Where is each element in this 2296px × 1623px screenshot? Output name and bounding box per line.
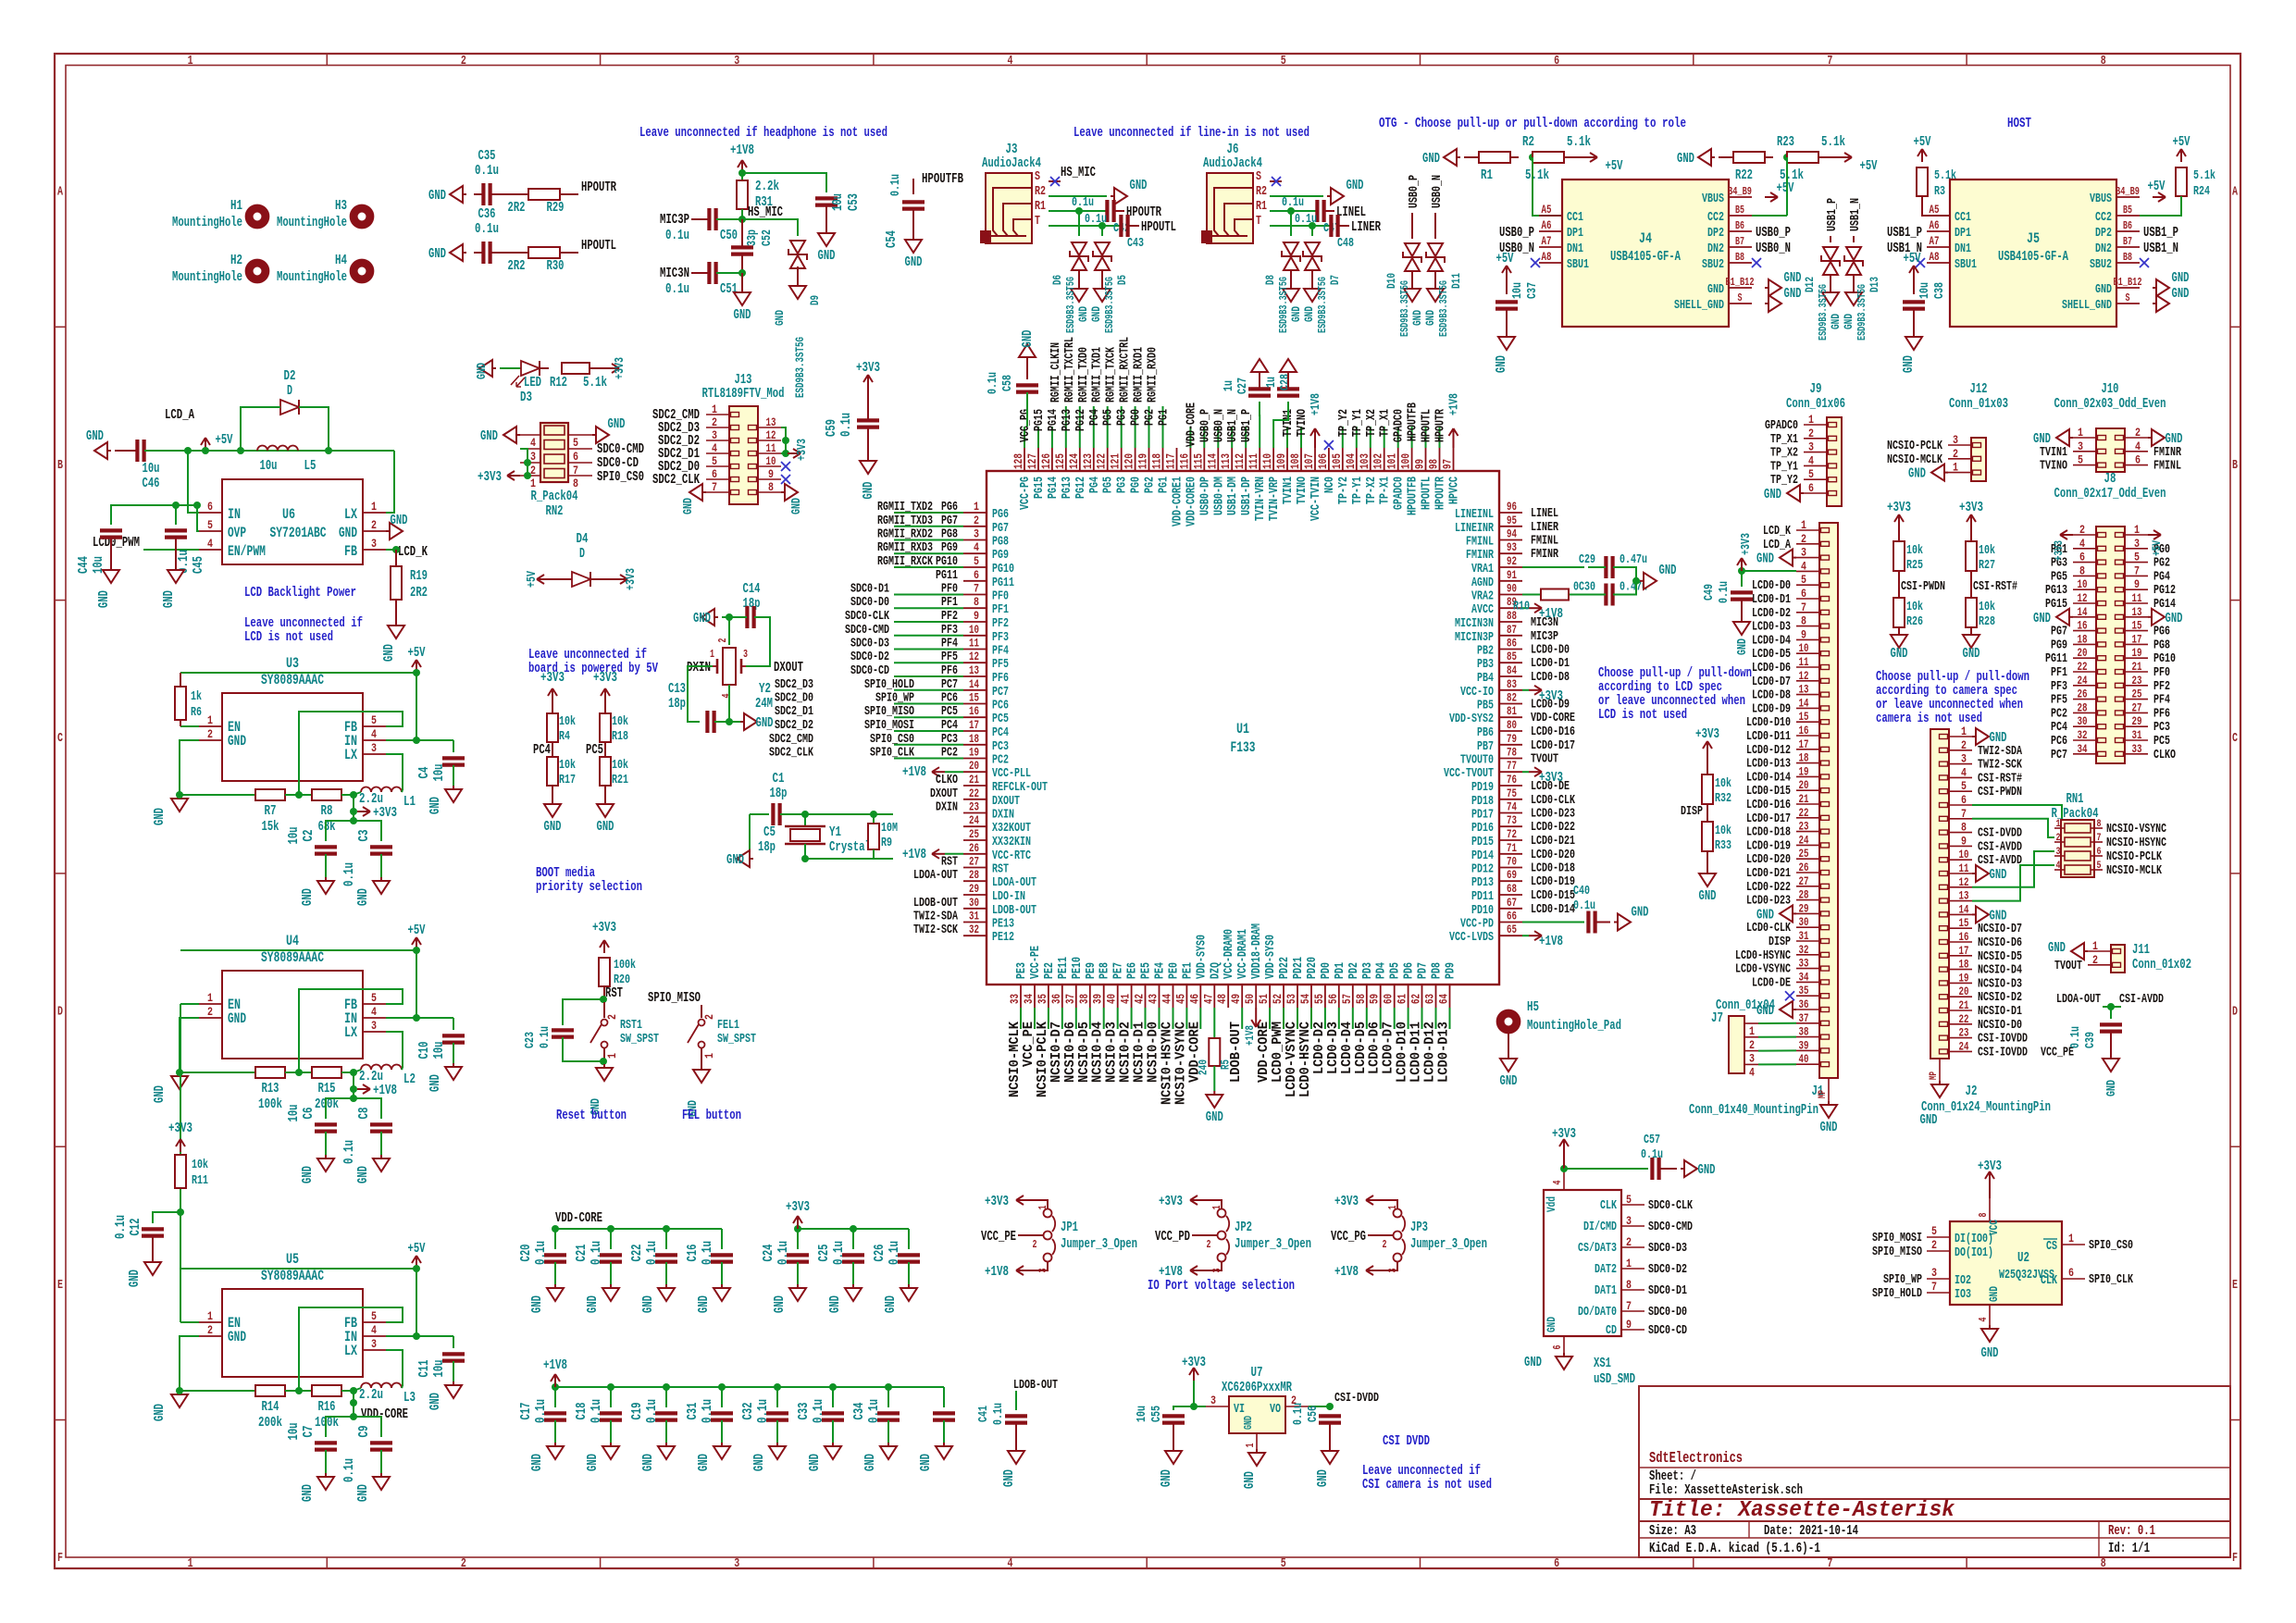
wire — [894, 539, 963, 541]
svg-text:VDD-SYS2: VDD-SYS2 — [1449, 712, 1494, 726]
power +5V — [2180, 149, 2182, 162]
svg-text:GND: GND — [1908, 466, 1926, 482]
wire — [402, 1068, 403, 1070]
junction — [1529, 154, 1536, 161]
wire — [326, 1391, 354, 1437]
svg-text:PC4: PC4 — [2051, 720, 2067, 735]
power +3V3 — [1529, 771, 1542, 773]
svg-text:30: 30 — [1799, 915, 1809, 929]
wire — [804, 844, 806, 859]
wire — [1241, 1008, 1243, 1029]
junction — [801, 855, 809, 862]
svg-text:GND: GND — [1632, 905, 1649, 921]
wire — [610, 1387, 612, 1407]
wire — [1310, 1008, 1312, 1029]
wire — [474, 193, 483, 195]
ground — [1765, 287, 1769, 289]
svg-text:GPADC0: GPADC0 — [1392, 477, 1407, 510]
svg-text:TP_X2: TP_X2 — [1770, 446, 1798, 461]
svg-text:R11: R11 — [192, 1173, 208, 1188]
svg-text:D8: D8 — [1263, 275, 1277, 285]
microcontroller U1 F133 — [987, 471, 1499, 985]
wire — [180, 949, 416, 951]
junction — [600, 1058, 607, 1065]
power +3V3 — [1193, 1368, 1195, 1381]
svg-text:3: 3 — [974, 527, 979, 541]
wire — [741, 254, 743, 273]
svg-text:U3: U3 — [286, 655, 299, 672]
svg-text:26: 26 — [1799, 861, 1809, 874]
svg-text:PG8: PG8 — [992, 535, 1009, 550]
svg-text:PG11: PG11 — [2045, 651, 2067, 666]
svg-text:C59: C59 — [824, 419, 839, 437]
svg-text:LCD_A: LCD_A — [165, 407, 194, 423]
svg-text:R17: R17 — [559, 773, 576, 787]
svg-text:0.1u: 0.1u — [589, 1241, 604, 1265]
svg-text:+1V8: +1V8 — [1447, 393, 1462, 415]
svg-text:PG13: PG13 — [2045, 583, 2067, 598]
svg-text:D7: D7 — [1328, 275, 1342, 285]
svg-text:Date: 2021-10-14: Date: 2021-10-14 — [1764, 1523, 1858, 1539]
junction — [738, 269, 746, 277]
wire — [1786, 157, 1788, 216]
svg-text:GND: GND — [86, 428, 104, 444]
wire — [776, 1387, 778, 1407]
power +1V8 — [932, 853, 945, 855]
svg-text:GND: GND — [1422, 151, 1440, 167]
ground — [1793, 1009, 1796, 1010]
svg-text:+3V3: +3V3 — [168, 1121, 192, 1136]
svg-text:33: 33 — [1799, 957, 1809, 971]
svg-text:114: 114 — [1205, 453, 1219, 469]
svg-text:GND: GND — [696, 1295, 712, 1313]
svg-text:NCSIO-PCLK: NCSIO-PCLK — [1887, 439, 1942, 453]
svg-text:PD12: PD12 — [1471, 862, 1494, 877]
svg-text:8: 8 — [1801, 614, 1806, 628]
svg-text:PD14: PD14 — [1471, 849, 1494, 863]
svg-text:CSI-PWDN: CSI-PWDN — [1901, 579, 1945, 594]
svg-text:PC5: PC5 — [586, 742, 603, 758]
resistor R29 — [528, 189, 560, 200]
svg-text:34: 34 — [1022, 994, 1036, 1004]
svg-text:PG3: PG3 — [1115, 477, 1130, 493]
svg-text:PD5: PD5 — [1388, 962, 1403, 979]
svg-text:C34: C34 — [851, 1403, 867, 1420]
wire — [1570, 594, 1606, 596]
svg-text:HOST: HOST — [2007, 116, 2031, 131]
svg-text:MP: MP — [1929, 1072, 1940, 1080]
svg-text:23: 23 — [969, 800, 979, 814]
svg-text:SY7201ABC: SY7201ABC — [270, 525, 327, 541]
svg-text:0.1u: 0.1u — [341, 862, 357, 886]
svg-text:PC4: PC4 — [533, 742, 551, 758]
svg-text:10k: 10k — [559, 714, 576, 729]
svg-text:OVP: OVP — [228, 525, 246, 541]
mounting hole H5 — [1500, 1013, 1517, 1030]
ground — [1830, 289, 1831, 292]
svg-text:19: 19 — [1959, 971, 1969, 985]
svg-text:HS_MIC: HS_MIC — [1061, 165, 1096, 180]
svg-text:LCD0-D10: LCD0-D10 — [1746, 715, 1791, 730]
svg-text:SY8089AAAC: SY8089AAAC — [261, 1268, 324, 1284]
wire — [1114, 210, 1124, 212]
svg-text:124: 124 — [1067, 453, 1081, 469]
junction — [782, 437, 789, 444]
svg-text:74: 74 — [1507, 800, 1517, 814]
svg-text:R5: R5 — [1218, 1059, 1232, 1070]
svg-text:A: A — [57, 185, 63, 200]
svg-text:C21: C21 — [574, 1245, 590, 1262]
resistor R21 — [600, 757, 611, 786]
svg-text:4: 4 — [2079, 537, 2085, 551]
svg-text:VDD-CORE: VDD-CORE — [555, 1210, 602, 1226]
wire — [1185, 1008, 1187, 1029]
ground — [380, 1155, 382, 1158]
wire — [894, 621, 963, 623]
wire — [1970, 527, 1972, 541]
mounting hole H1 — [249, 208, 266, 225]
svg-text:1: 1 — [605, 1053, 619, 1059]
wire — [1192, 1234, 1217, 1236]
svg-text:D12: D12 — [1803, 277, 1817, 292]
svg-text:26: 26 — [969, 841, 979, 855]
resistor R6 — [175, 687, 186, 720]
svg-text:GND: GND — [1764, 487, 1781, 502]
svg-text:MIC3P: MIC3P — [1531, 629, 1558, 644]
svg-text:LX: LX — [344, 747, 357, 763]
svg-text:10u: 10u — [1510, 282, 1525, 299]
svg-text:C32: C32 — [740, 1403, 756, 1420]
svg-text:DN1: DN1 — [1955, 242, 1971, 256]
svg-text:GND: GND — [381, 644, 397, 662]
svg-text:44: 44 — [1160, 994, 1174, 1004]
svg-text:71: 71 — [1507, 841, 1517, 855]
svg-text:FB: FB — [344, 543, 357, 560]
wire — [180, 673, 181, 687]
svg-text:C46: C46 — [143, 476, 160, 491]
ground — [714, 616, 718, 618]
svg-text:115: 115 — [1191, 453, 1205, 469]
svg-text:TVINO: TVINO — [1295, 409, 1309, 437]
svg-text:1: 1 — [188, 54, 193, 68]
svg-text:R1: R1 — [1035, 199, 1046, 214]
svg-text:5: 5 — [2078, 453, 2083, 467]
svg-text:19: 19 — [1799, 764, 1809, 778]
svg-text:GND: GND — [475, 363, 490, 379]
svg-text:C37: C37 — [1525, 282, 1540, 299]
svg-text:XX32KIN: XX32KIN — [992, 835, 1031, 849]
svg-text:DAT1: DAT1 — [1595, 1283, 1617, 1298]
svg-text:PG8: PG8 — [2153, 638, 2170, 652]
svg-text:Reset button: Reset button — [556, 1108, 627, 1123]
svg-text:NCSIO-D4: NCSIO-D4 — [1978, 963, 2022, 978]
svg-text:103: 103 — [1358, 453, 1371, 469]
junction — [193, 502, 201, 509]
svg-text:2: 2 — [207, 1323, 213, 1337]
ground — [179, 795, 180, 799]
svg-text:PG7: PG7 — [992, 521, 1009, 536]
ground — [552, 800, 553, 804]
svg-text:SDC0-CD: SDC0-CD — [1648, 1323, 1687, 1338]
svg-text:VCC-RTC: VCC-RTC — [992, 849, 1031, 863]
junction — [295, 1387, 303, 1394]
svg-text:10u: 10u — [431, 1360, 447, 1378]
svg-text:C24: C24 — [761, 1245, 776, 1262]
svg-text:93: 93 — [1507, 540, 1517, 554]
svg-text:CS/DAT3: CS/DAT3 — [1578, 1241, 1617, 1256]
svg-text:H2: H2 — [230, 253, 242, 268]
svg-text:J8: J8 — [2104, 471, 2116, 487]
junction — [663, 1383, 670, 1391]
svg-text:DISP: DISP — [1681, 804, 1703, 819]
svg-text:PC3: PC3 — [2153, 720, 2170, 735]
ground — [610, 1284, 612, 1288]
power +1V8 — [1529, 607, 1542, 609]
svg-text:LINEL: LINEL — [1531, 506, 1558, 521]
svg-text:2: 2 — [1749, 1038, 1755, 1052]
svg-text:3: 3 — [1961, 752, 1967, 766]
junction — [794, 1225, 801, 1233]
svg-text:MIC3P: MIC3P — [660, 212, 689, 228]
svg-text:CC1: CC1 — [1567, 210, 1583, 225]
svg-text:DISP: DISP — [1769, 935, 1791, 949]
no-connect — [1531, 258, 1540, 267]
wire — [354, 1098, 381, 1119]
svg-text:R8: R8 — [321, 803, 333, 819]
svg-text:USB1_P: USB1_P — [1825, 198, 1840, 231]
svg-text:PG15: PG15 — [1032, 409, 1047, 431]
wire — [780, 813, 893, 815]
XS1 GND pin — [1563, 1336, 1565, 1353]
svg-text:+5V: +5V — [525, 571, 540, 588]
svg-text:Id: 1/1: Id: 1/1 — [2108, 1541, 2150, 1556]
svg-text:17: 17 — [969, 718, 979, 732]
wire — [1018, 1234, 1043, 1236]
svg-text:104: 104 — [1344, 453, 1358, 469]
junction — [726, 613, 733, 621]
wire — [908, 1262, 910, 1284]
wire — [402, 790, 403, 792]
svg-text:20: 20 — [1959, 985, 1969, 998]
svg-text:8: 8 — [1977, 1213, 1990, 1218]
svg-text:27: 27 — [1799, 874, 1809, 888]
wire — [1411, 427, 1413, 448]
svg-text:+3V3: +3V3 — [373, 805, 397, 821]
svg-text:J5: J5 — [2027, 230, 2040, 247]
svg-text:Conn_01x02: Conn_01x02 — [2132, 957, 2191, 973]
svg-text:FMINR: FMINR — [2153, 445, 2181, 460]
ground — [721, 1284, 723, 1288]
svg-text:PG0: PG0 — [1129, 477, 1144, 493]
ground — [453, 1381, 454, 1385]
svg-text:SHELL_GND: SHELL_GND — [1674, 298, 1724, 313]
svg-text:10k: 10k — [1715, 776, 1731, 791]
svg-text:RST: RST — [605, 985, 623, 1001]
svg-text:+3V3: +3V3 — [1959, 500, 1983, 515]
wire — [180, 1336, 256, 1391]
wire — [380, 1450, 382, 1473]
svg-text:+5V: +5V — [216, 432, 233, 448]
svg-text:DXOUT: DXOUT — [774, 660, 803, 675]
power +1V8 — [1529, 935, 1542, 936]
svg-text:12: 12 — [766, 428, 776, 442]
svg-text:PD13: PD13 — [1471, 875, 1494, 890]
svg-text:C3: C3 — [356, 830, 372, 842]
power +1V8 — [1366, 1270, 1379, 1271]
svg-text:VCC_PG: VCC_PG — [1331, 1229, 1366, 1245]
svg-text:3: 3 — [1210, 1394, 1216, 1407]
ground — [1989, 1325, 1991, 1329]
svg-text:45: 45 — [1173, 994, 1187, 1004]
svg-text:GND: GND — [1159, 1469, 1174, 1487]
wire — [180, 1321, 199, 1323]
svg-text:C26: C26 — [872, 1245, 887, 1262]
wire — [1048, 1008, 1049, 1029]
wire — [1026, 361, 1028, 379]
svg-text:2.2k: 2.2k — [755, 179, 779, 194]
svg-text:2: 2 — [605, 1014, 619, 1020]
wire — [1273, 402, 1288, 448]
svg-text:+5V: +5V — [1606, 158, 1623, 174]
ground — [453, 786, 454, 789]
svg-text:H4: H4 — [335, 253, 347, 268]
svg-text:92: 92 — [1507, 554, 1517, 568]
ground — [1311, 285, 1313, 289]
svg-text:5: 5 — [712, 454, 717, 468]
svg-text:1: 1 — [207, 991, 213, 1005]
svg-text:121: 121 — [1109, 453, 1123, 469]
mounting hole H2 — [249, 263, 266, 279]
ground — [1972, 736, 1976, 737]
svg-text:10u: 10u — [286, 1423, 302, 1441]
svg-text:16: 16 — [1799, 724, 1809, 737]
ground — [1078, 285, 1080, 289]
wire — [1078, 211, 1080, 236]
svg-text:87: 87 — [1507, 623, 1517, 637]
svg-text:PF4: PF4 — [2153, 693, 2170, 708]
svg-text:LDOB-OUT: LDOB-OUT — [1013, 1378, 1058, 1393]
wire — [665, 1420, 667, 1443]
svg-text:U1: U1 — [1236, 721, 1249, 737]
ground — [2148, 437, 2152, 439]
wire — [1101, 270, 1103, 285]
svg-text:SPI0_MOSI: SPI0_MOSI — [1872, 1231, 1922, 1245]
svg-text:SPI0_MISO: SPI0_MISO — [1872, 1245, 1922, 1259]
svg-text:33: 33 — [1008, 994, 1022, 1004]
svg-text:GND: GND — [1206, 1109, 1223, 1125]
power +1V8 — [741, 160, 743, 173]
resistor right — [312, 1385, 341, 1396]
svg-text:7: 7 — [712, 480, 717, 494]
junction — [413, 1332, 420, 1340]
ground — [2148, 616, 2152, 618]
wire — [728, 685, 730, 722]
svg-text:DXOUT: DXOUT — [992, 794, 1020, 809]
junction — [350, 1069, 357, 1076]
svg-text:10u: 10u — [1135, 1406, 1149, 1422]
wire — [1245, 427, 1247, 448]
svg-text:ESD9B3.3ST5G: ESD9B3.3ST5G — [1398, 280, 1411, 337]
svg-text:PB6: PB6 — [1477, 725, 1494, 740]
svg-text:B: B — [57, 458, 63, 473]
wire — [1408, 1008, 1409, 1029]
power +1V8 — [1255, 1014, 1257, 1027]
svg-text:HPOUTL: HPOUTL — [1141, 219, 1176, 235]
svg-text:PF2: PF2 — [2153, 679, 2170, 694]
ground — [1793, 557, 1796, 559]
junction — [607, 1225, 614, 1233]
title block — [1639, 1386, 2230, 1557]
wire — [894, 512, 963, 514]
svg-text:GND: GND — [1001, 1469, 1017, 1487]
power +3V3 — [507, 475, 520, 477]
svg-text:113: 113 — [1219, 453, 1233, 469]
svg-text:ESD9B3.3ST5G: ESD9B3.3ST5G — [1316, 277, 1329, 333]
svg-text:GND: GND — [300, 888, 316, 906]
wire — [1913, 309, 1915, 333]
svg-text:VBUS: VBUS — [2090, 192, 2112, 206]
svg-text:C55: C55 — [1149, 1406, 1164, 1422]
wire — [180, 720, 181, 726]
svg-text:12: 12 — [969, 650, 979, 663]
svg-text:70: 70 — [1507, 855, 1517, 869]
svg-text:A6: A6 — [1542, 218, 1552, 232]
wire — [1765, 156, 1773, 158]
wire — [912, 209, 914, 236]
svg-text:0.1u: 0.1u — [700, 1241, 715, 1265]
wire — [1049, 180, 1061, 182]
wire — [1269, 1008, 1271, 1029]
svg-text:13: 13 — [969, 663, 979, 677]
svg-text:25: 25 — [2132, 688, 2142, 701]
wire — [416, 950, 417, 1018]
svg-text:36: 36 — [1799, 997, 1809, 1011]
svg-text:LCD0-D22: LCD0-D22 — [1746, 880, 1791, 895]
wire — [560, 252, 578, 254]
wire — [1972, 819, 2054, 837]
svg-text:R13: R13 — [262, 1081, 279, 1096]
svg-text:4: 4 — [1801, 559, 1806, 573]
wire — [1049, 225, 1121, 227]
svg-text:HPOUTL: HPOUTL — [1420, 477, 1434, 510]
ground — [592, 434, 596, 436]
capacitor C52 — [731, 247, 753, 254]
svg-text:USB0_N: USB0_N — [1211, 409, 1226, 442]
junction — [718, 1383, 726, 1391]
junction — [413, 1014, 420, 1022]
svg-text:20: 20 — [969, 759, 979, 773]
svg-text:SDC0-D1: SDC0-D1 — [850, 582, 889, 597]
svg-text:PF3: PF3 — [2051, 679, 2067, 694]
resistor R22 — [1787, 152, 1818, 163]
svg-text:C16: C16 — [685, 1245, 701, 1262]
svg-text:GND: GND — [428, 188, 446, 204]
svg-text:PF3: PF3 — [992, 630, 1009, 645]
svg-text:NCSIO-HSYNC: NCSIO-HSYNC — [2106, 836, 2166, 850]
svg-text:PG4: PG4 — [2153, 569, 2170, 584]
svg-text:6: 6 — [207, 500, 213, 514]
svg-text:2: 2 — [1207, 1238, 1211, 1251]
svg-text:39: 39 — [1799, 1038, 1809, 1052]
wire — [552, 786, 553, 800]
svg-text:0.1u: 0.1u — [838, 413, 854, 437]
svg-text:B8: B8 — [2123, 251, 2132, 264]
ground — [325, 877, 327, 881]
svg-text:+1V8: +1V8 — [1243, 1025, 1257, 1046]
svg-text:HPOUTR: HPOUTR — [581, 180, 616, 195]
svg-text:GND: GND — [1089, 306, 1103, 322]
TVS diode D10 — [1403, 243, 1421, 271]
